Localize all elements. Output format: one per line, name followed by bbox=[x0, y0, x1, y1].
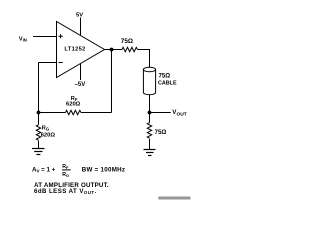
svg-text:RG: RG bbox=[42, 125, 49, 131]
wire inverting input bbox=[39, 62, 57, 64]
resistor 75 ohm termination bbox=[147, 123, 166, 138]
svg-text:6dB LESS AT VOUT.: 6dB LESS AT VOUT. bbox=[34, 188, 97, 195]
node output junction bbox=[110, 48, 114, 52]
svg-text:75Ω: 75Ω bbox=[155, 129, 167, 136]
wire feedback vertical bbox=[38, 63, 40, 113]
node VIN label bbox=[19, 36, 27, 42]
ground right bbox=[144, 150, 156, 156]
svg-text:75Ω: 75Ω bbox=[159, 73, 171, 80]
wire termination to ground bbox=[149, 139, 151, 150]
power +5V bbox=[76, 12, 83, 35]
svg-text:VOUT: VOUT bbox=[172, 109, 186, 117]
svg-text:620Ω: 620Ω bbox=[41, 133, 56, 139]
svg-text:AV = 1 +: AV = 1 + bbox=[32, 167, 56, 174]
svg-text:RF: RF bbox=[62, 164, 69, 170]
svg-text:VIN: VIN bbox=[19, 36, 27, 42]
svg-text:–5V: –5V bbox=[75, 82, 86, 88]
svg-text:620Ω: 620Ω bbox=[66, 101, 81, 107]
node feedback junction bbox=[37, 111, 41, 115]
svg-text:RG: RG bbox=[62, 172, 69, 178]
svg-text:5V: 5V bbox=[76, 12, 83, 18]
cable 75 ohm coax bbox=[143, 67, 177, 94]
svg-text:LT1252: LT1252 bbox=[64, 47, 85, 53]
wire op-amp output bbox=[105, 49, 123, 51]
resistor RF 620 ohm bbox=[39, 96, 112, 115]
wire cable to VOUT node bbox=[149, 95, 151, 123]
equation gain formula bbox=[32, 164, 71, 178]
svg-text:BW = 100MHz: BW = 100MHz bbox=[82, 167, 125, 174]
op-amp U1 LT1252 bbox=[57, 22, 105, 78]
resistor 75 ohm series bbox=[121, 38, 138, 52]
ground left bbox=[32, 149, 45, 155]
wire RG to ground bbox=[38, 141, 40, 149]
wire VOUT stub bbox=[150, 112, 171, 114]
wire resistor to cable bbox=[138, 50, 150, 68]
footer gray bar bbox=[158, 197, 190, 200]
svg-text:CABLE: CABLE bbox=[158, 81, 177, 87]
wire output junction down bbox=[111, 50, 113, 113]
power -5V bbox=[75, 64, 86, 89]
resistor RG 620 ohm bbox=[36, 113, 55, 141]
node VOUT junction bbox=[148, 111, 152, 115]
wire VIN to + input bbox=[33, 36, 57, 38]
svg-text:75Ω: 75Ω bbox=[121, 38, 133, 45]
